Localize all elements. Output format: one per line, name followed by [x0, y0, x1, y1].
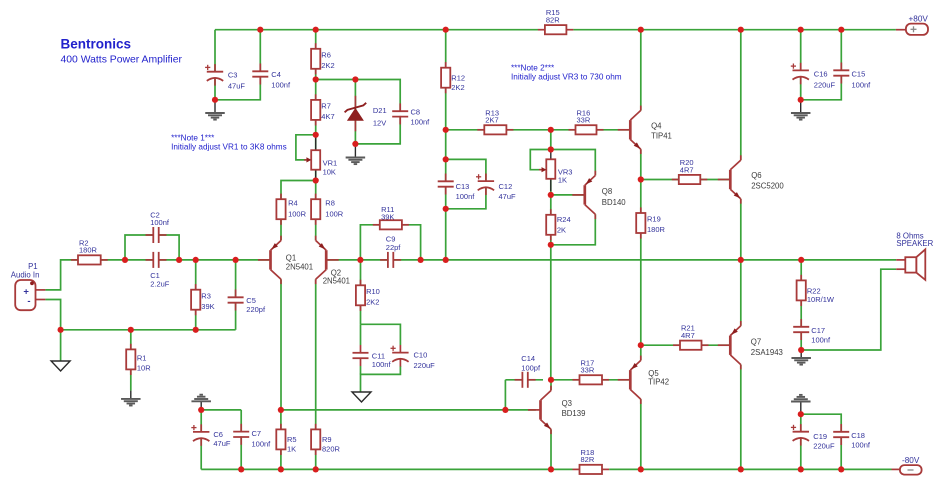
capacitor C10 (electrolytic) — [399, 345, 401, 353]
svg-text:4R7: 4R7 — [680, 165, 694, 174]
wire VR3 wiper loop — [530, 150, 551, 170]
node Q4 collector/top rail — [638, 27, 644, 33]
svg-text:82R: 82R — [581, 455, 595, 464]
node Q7 collector/rail — [738, 466, 744, 472]
wire C5 branch — [235, 260, 237, 330]
svg-text:C7: C7 — [252, 429, 262, 438]
node D21 bottom — [352, 141, 358, 147]
ground bars R1 — [121, 398, 141, 400]
wire R10 branch — [360, 260, 362, 324]
svg-text:R6: R6 — [321, 50, 331, 59]
svg-text:C5: C5 — [246, 296, 256, 305]
wire Q3 base line — [281, 409, 536, 411]
svg-text:180R: 180R — [647, 225, 666, 234]
capacitor C2 — [146, 234, 154, 236]
ground bars C6 — [191, 400, 211, 402]
transistor Q7 2SA1943 (PNP) — [718, 344, 731, 346]
capacitor C18 — [840, 424, 842, 432]
wire Q3 collector — [550, 380, 552, 391]
svg-text:Initially adjust VR3 to 730 oh: Initially adjust VR3 to 730 ohm — [511, 72, 622, 81]
svg-text:100pf: 100pf — [521, 364, 541, 373]
ground under C3 — [214, 100, 216, 113]
node C19/C18 top node — [798, 411, 804, 417]
wire R16 line — [551, 129, 630, 131]
potentiometer VR1 — [311, 150, 320, 170]
wire D21/C8 top line — [316, 80, 401, 144]
svg-text:180R: 180R — [79, 246, 98, 255]
wire C11/C10 top link — [361, 324, 401, 345]
resistor R13 — [477, 129, 484, 131]
node VR1 bottom — [313, 177, 319, 183]
node C13 column/output line — [443, 257, 449, 263]
svg-text:39K: 39K — [201, 302, 214, 311]
capacitor C3 (electrolytic) — [214, 64, 216, 72]
wire VR1 bottom to R4/R8 — [281, 181, 316, 241]
node C13 top — [443, 156, 449, 162]
transistor Q6 2SC5200 (NPN) — [718, 179, 731, 181]
capacitor C14 — [515, 379, 523, 381]
resistor R22 — [800, 275, 802, 281]
wire C3 column — [215, 30, 260, 100]
ground under C16 — [800, 100, 802, 113]
svg-text:10R: 10R — [137, 364, 151, 373]
svg-text:100nf: 100nf — [852, 81, 872, 90]
svg-text:400 Watts Power Amplifier: 400 Watts Power Amplifier — [61, 55, 183, 66]
svg-text:1K: 1K — [287, 445, 296, 454]
node R6/R7/D21 node — [313, 76, 319, 82]
svg-text:82R: 82R — [546, 16, 560, 25]
node Q2 base/R10/R11 — [357, 257, 363, 263]
node R11/C9 right — [418, 257, 424, 263]
svg-text:***Note 2***: ***Note 2*** — [511, 63, 555, 72]
svg-text:1K: 1K — [558, 176, 567, 185]
resistor R20 — [672, 179, 679, 181]
svg-text:R3: R3 — [201, 291, 211, 300]
node R12/top rail — [443, 27, 449, 33]
node C1/C2 left — [122, 257, 128, 263]
svg-text:C19: C19 — [813, 432, 827, 441]
svg-text:22pf: 22pf — [386, 243, 402, 252]
svg-text:C4: C4 — [271, 70, 281, 79]
svg-text:39K: 39K — [381, 212, 394, 221]
svg-text:220uF: 220uF — [414, 361, 436, 370]
node VR3 wiper node — [548, 146, 554, 152]
svg-text:4K7: 4K7 — [321, 112, 334, 121]
ground above C19 (inverted) — [800, 402, 802, 415]
node Q5 collector/rail — [638, 466, 644, 472]
svg-text:R24: R24 — [557, 215, 571, 224]
ground bars C3 — [205, 112, 225, 114]
wire Q6 collector — [740, 30, 742, 160]
-80V supply terminal — [892, 468, 900, 470]
capacitor C8 — [399, 103, 401, 111]
ground triangle C10/C11 — [352, 392, 371, 402]
capacitor C15 — [840, 63, 842, 71]
node R12/R13 node — [443, 127, 449, 133]
node Q1 collector/R5 node — [278, 407, 284, 413]
resistor R19 — [640, 207, 642, 213]
node C7 bottom — [238, 466, 244, 472]
svg-text:R7: R7 — [321, 102, 331, 111]
svg-text:33R: 33R — [577, 116, 591, 125]
svg-text:100nf: 100nf — [456, 192, 476, 201]
svg-text:100nf: 100nf — [252, 440, 272, 449]
wire VR3 column — [550, 130, 552, 150]
svg-text:C15: C15 — [852, 70, 866, 79]
ground bars C16 — [791, 112, 811, 114]
svg-text:47uF: 47uF — [499, 192, 517, 201]
svg-text:C6: C6 — [213, 430, 223, 439]
svg-text:Q8: Q8 — [602, 187, 612, 196]
node C19 bottom — [798, 466, 804, 472]
node Q3 emitter/rail — [548, 466, 554, 472]
wire +80V top rail — [215, 29, 538, 31]
wire C14 left drop — [505, 379, 543, 381]
svg-text:Q6: Q6 — [751, 171, 761, 180]
resistor R17 — [573, 379, 580, 381]
svg-text:10K: 10K — [323, 168, 336, 177]
node C5 tap — [233, 257, 239, 263]
node R22 tap — [798, 257, 804, 263]
wire C7 branch — [240, 410, 242, 470]
capacitor C11 — [360, 345, 362, 353]
svg-text:C8: C8 — [411, 108, 421, 117]
svg-text:2K2: 2K2 — [451, 83, 464, 92]
svg-text:10R/1W: 10R/1W — [807, 295, 835, 304]
ground above C6 (inverted) — [200, 401, 202, 410]
node gnd/C6/C7 node — [198, 407, 204, 413]
svg-text:Bentronics: Bentronics — [61, 37, 132, 52]
svg-text:2K7: 2K7 — [485, 116, 498, 125]
wire VR1 wiper loop — [296, 135, 316, 160]
svg-text:R12: R12 — [451, 74, 465, 83]
wire R24 column — [550, 195, 552, 245]
transistor Q3 BD139 (NPN) — [528, 409, 541, 411]
wire R11 loop — [360, 225, 420, 260]
svg-text:2SA1943: 2SA1943 — [751, 348, 783, 357]
node C3 bottom — [212, 97, 218, 103]
potentiometer VR3 — [550, 150, 552, 160]
connector P1 Audio In — [36, 289, 46, 291]
svg-text:C18: C18 — [851, 431, 865, 440]
svg-text:R9: R9 — [322, 435, 332, 444]
wire C19 branch — [800, 414, 802, 469]
wire Q2 collector to R9 — [315, 279, 317, 469]
wire R1 branch — [130, 330, 132, 391]
wire R22/C17 branch — [800, 260, 802, 350]
ground bars D21 — [346, 157, 366, 159]
wire bias column down to Q3 — [550, 245, 552, 380]
wire R13 line — [446, 129, 551, 131]
svg-text:+80V: +80V — [909, 15, 929, 24]
wire main output line — [328, 259, 897, 261]
svg-text:C12: C12 — [499, 182, 513, 191]
node output node — [738, 257, 744, 263]
wire Q7 emitter to output — [740, 260, 742, 326]
wire R3 branch — [195, 260, 197, 330]
svg-text:C9: C9 — [386, 234, 396, 243]
resistor R12 — [445, 62, 447, 68]
svg-text:Audio In: Audio In — [11, 270, 40, 279]
wire R6-R7-VR1 column — [315, 30, 317, 181]
svg-text:BD139: BD139 — [562, 409, 586, 418]
svg-text:Q3: Q3 — [562, 399, 572, 408]
wire R21 line — [641, 344, 730, 346]
svg-text:Q7: Q7 — [751, 338, 761, 347]
svg-text:TIP42: TIP42 — [648, 378, 669, 387]
node R1 tap — [128, 327, 134, 333]
svg-text:100R: 100R — [288, 210, 307, 219]
capacitor C1 — [146, 259, 154, 261]
svg-text:47uF: 47uF — [213, 439, 231, 448]
svg-text:4R7: 4R7 — [681, 331, 695, 340]
svg-text:Q1: Q1 — [286, 254, 296, 263]
node R5 bottom — [278, 466, 284, 472]
wire Q7 collector — [740, 365, 742, 470]
node Q3 collector/C14/R17 node — [548, 377, 554, 383]
svg-text:R8: R8 — [325, 199, 335, 208]
node C13 bottom — [443, 206, 449, 212]
transistor Q5 TIP42 (PNP) — [618, 379, 631, 381]
capacitor C12 (electrolytic) — [485, 174, 487, 182]
wire R20 line — [641, 179, 730, 181]
node Q5 emitter/R19/R21 — [638, 342, 644, 348]
node P1 gnd node — [58, 327, 64, 333]
node C16 bottom — [798, 97, 804, 103]
ground bars C19 — [791, 401, 811, 403]
node R24 bottom — [548, 242, 554, 248]
resistor R7 — [315, 94, 317, 100]
node C17 bottom node — [798, 347, 804, 353]
svg-text:R4: R4 — [288, 199, 298, 208]
node C18 bottom — [838, 466, 844, 472]
node C1/C2 right — [176, 257, 182, 263]
capacitor C16 (electrolytic) — [800, 63, 802, 71]
wire Q6 emitter to output — [740, 199, 742, 260]
wire C15 branch — [801, 30, 842, 100]
node C15/top rail — [838, 27, 844, 33]
zener diode D21 — [354, 96, 356, 107]
capacitor C6 (electrolytic) — [200, 424, 202, 432]
svg-text:R22: R22 — [807, 286, 821, 295]
wire C2 loop — [125, 235, 179, 260]
capacitor C17 — [800, 319, 802, 327]
ground under R1 — [130, 391, 132, 399]
svg-text:220uF: 220uF — [814, 81, 836, 90]
ground triangle P1 — [51, 361, 70, 371]
node C16/top rail — [798, 27, 804, 33]
capacitor C5 — [235, 290, 237, 298]
svg-text:C14: C14 — [521, 354, 535, 363]
wire R5 branch — [280, 410, 282, 470]
node R9 bottom — [313, 466, 319, 472]
wire C18 branch — [801, 414, 841, 469]
node R13/R16/VR3 node — [548, 127, 554, 133]
wire C6 column — [200, 410, 202, 470]
wire R12/C13 column — [445, 30, 447, 260]
svg-text:Initially adjust VR1 to 3K8 oh: Initially adjust VR1 to 3K8 ohms — [171, 143, 287, 152]
svg-text:R10: R10 — [366, 287, 380, 296]
+80V supply terminal — [896, 29, 906, 31]
svg-text:D21: D21 — [373, 106, 387, 115]
wire Q5 emitter link — [640, 345, 642, 360]
wire P1 minus to gnd line — [45, 300, 60, 330]
node C14 drop node — [502, 407, 508, 413]
ground bars C17 — [791, 357, 811, 359]
wire input line P1 to Q1 base — [45, 260, 269, 290]
wire speaker return — [801, 269, 896, 350]
resistor R11 — [373, 224, 380, 226]
transistor Q8 BD140 (PNP) — [572, 194, 585, 196]
node C4/top rail — [257, 27, 263, 33]
wire R17 line — [551, 379, 630, 381]
ground under D21 — [354, 144, 356, 158]
resistor R4 — [280, 194, 282, 200]
svg-text:VR1: VR1 — [323, 159, 338, 168]
node R6/top rail — [313, 27, 319, 33]
svg-text:2K2: 2K2 — [366, 298, 379, 307]
resistor R15 — [538, 29, 545, 31]
resistor R16 — [569, 129, 576, 131]
svg-text:2.2uF: 2.2uF — [150, 280, 170, 289]
node Q4 emitter/R19/R20 — [638, 176, 644, 182]
node Q6 collector/top rail — [738, 27, 744, 33]
svg-text:100nf: 100nf — [271, 81, 291, 90]
wire Q5 collector — [640, 399, 642, 469]
svg-text:100nf: 100nf — [372, 360, 392, 369]
speaker SP1 8 Ohms — [896, 259, 905, 261]
resistor R8 — [315, 194, 317, 200]
svg-text:C3: C3 — [228, 71, 238, 80]
svg-text:C16: C16 — [814, 70, 828, 79]
node VR1 top — [313, 132, 319, 138]
svg-text:100nf: 100nf — [150, 218, 170, 227]
potentiometer VR3 — [546, 159, 555, 179]
svg-text:C10: C10 — [414, 351, 428, 360]
svg-text:820R: 820R — [322, 445, 341, 454]
potentiometer VR1 — [315, 135, 317, 150]
svg-text:220pf: 220pf — [246, 305, 266, 314]
resistor R2 — [71, 259, 78, 261]
wire Q8 emitter link — [551, 150, 596, 176]
svg-text:47uF: 47uF — [228, 82, 246, 91]
capacitor C9 — [380, 259, 388, 261]
svg-text:R19: R19 — [647, 215, 661, 224]
capacitor C13 — [445, 174, 447, 182]
svg-text:C1: C1 — [150, 271, 160, 280]
resistor R9 — [315, 424, 317, 430]
resistor R6 — [315, 43, 317, 49]
node R3 bottom — [193, 327, 199, 333]
wire C16 branch — [800, 30, 802, 100]
svg-text:2SC5200: 2SC5200 — [751, 182, 784, 191]
svg-text:-: - — [27, 296, 30, 307]
transistor Q1 2N5401 (PNP) — [258, 259, 271, 261]
svg-text:R5: R5 — [287, 435, 297, 444]
svg-text:2K2: 2K2 — [321, 61, 334, 70]
resistor R21 — [673, 344, 680, 346]
svg-text:BD140: BD140 — [602, 198, 627, 207]
ground under C17 — [800, 350, 802, 358]
wire Q8 collector link — [551, 214, 596, 245]
svg-text:***Note 1***: ***Note 1*** — [171, 134, 215, 143]
svg-text:100nf: 100nf — [851, 441, 871, 450]
resistor R10 — [360, 280, 362, 286]
resistor R5 — [280, 424, 282, 430]
transistor Q2 2N5401 (PNP) — [326, 259, 339, 261]
svg-text:C17: C17 — [811, 326, 825, 335]
resistor R18 — [573, 468, 580, 470]
node D21 top — [352, 76, 358, 82]
svg-text:C13: C13 — [456, 182, 470, 191]
capacitor C19 (electrolytic) — [800, 424, 802, 432]
node VR3 bottom/Q8 base — [548, 192, 554, 198]
svg-text:2N5401: 2N5401 — [286, 263, 313, 272]
resistor R1 — [130, 344, 132, 350]
svg-text:2K: 2K — [557, 226, 566, 235]
wire Q1 emitter/collector column — [280, 279, 282, 410]
wire Q3 emitter to rail — [550, 429, 552, 469]
wire Q4 collector — [640, 30, 642, 111]
wire -80V bottom rail — [201, 468, 572, 470]
svg-text:SPEAKER: SPEAKER — [896, 239, 933, 248]
svg-text:100R: 100R — [325, 210, 344, 219]
wire gnd/C7 link — [201, 409, 241, 411]
resistor R24 — [550, 209, 552, 215]
wire C12 branch — [446, 159, 486, 208]
node R3 tap — [193, 257, 199, 263]
svg-text:TIP41: TIP41 — [651, 132, 672, 141]
transistor Q4 TIP41 (NPN) — [618, 129, 631, 131]
wire input gnd line — [61, 329, 236, 331]
svg-text:R1: R1 — [137, 354, 147, 363]
svg-text:12V: 12V — [373, 119, 386, 128]
svg-text:Q4: Q4 — [651, 122, 662, 131]
svg-text:33R: 33R — [581, 366, 595, 375]
wire C11/C10 bottom link — [361, 366, 401, 392]
capacitor C4 — [259, 64, 261, 72]
wire Q4 emitter / R19 — [640, 149, 642, 345]
svg-text:100nf: 100nf — [411, 118, 431, 127]
svg-text:-80V: -80V — [902, 456, 920, 465]
resistor R3 — [195, 284, 197, 290]
wire VR3 bottom / Q8 base — [550, 180, 552, 195]
svg-text:100nf: 100nf — [811, 335, 831, 344]
capacitor C7 — [240, 424, 242, 432]
svg-text:2N5401: 2N5401 — [323, 277, 350, 286]
svg-text:220uF: 220uF — [813, 442, 835, 451]
